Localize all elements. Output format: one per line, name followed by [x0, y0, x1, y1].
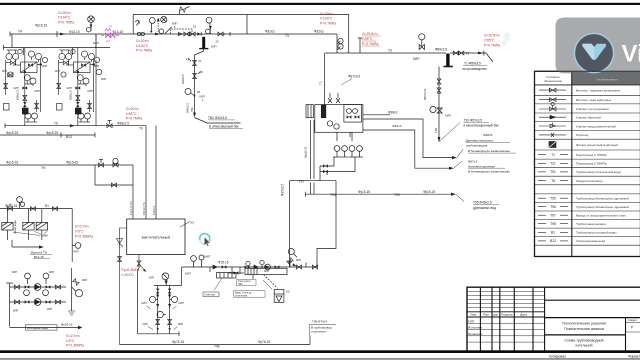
wire B1 drop x72.2	[71, 209, 73, 262]
svg-text:КИП: КИП	[13, 309, 18, 313]
X valves on top	[328, 93, 340, 103]
red note 8	[122, 268, 140, 277]
svg-text:котельной: котельной	[576, 344, 593, 348]
svg-text:Фкд10-15: Фкд10-15	[304, 146, 308, 158]
svg-text:КИП: КИП	[14, 86, 19, 90]
svg-text:трубопроводов: трубопроводов	[466, 144, 488, 148]
boxed label Исходная вода	[26, 325, 58, 330]
dashed box above T1	[171, 29, 193, 34]
black bar break symbol x448	[446, 54, 449, 67]
title block stage labels	[628, 318, 637, 330]
circles in box	[327, 121, 332, 126]
dashed stem x158	[157, 18, 159, 33]
svg-text:Химочищенная вода: Химочищенная вода	[576, 239, 605, 243]
wire T96 drain line y344.5	[120, 344, 311, 346]
legend table border over watermark	[535, 71, 640, 85]
svg-text:В атмосферный бак: В атмосферный бак	[209, 125, 239, 129]
legend row lines	[535, 95, 640, 245]
svg-text:Т96-Ф76х3: Т96-Ф76х3	[312, 319, 327, 323]
dashed diagonal	[264, 275, 278, 289]
svg-text:КИП: КИП	[49, 270, 54, 274]
mouse cursor	[204, 237, 210, 247]
KIP labels	[142, 270, 270, 326]
svg-text:Т97: Т97	[550, 214, 556, 218]
wire arrow line y247	[12, 246, 40, 248]
valve pair before exit	[453, 51, 458, 55]
instrument stack x90	[86, 16, 94, 32]
leader to HBK label	[13, 231, 48, 236]
svg-text:t=104°C: t=104°C	[320, 17, 333, 21]
wire B1 line y208.6	[0, 208, 72, 210]
svg-text:Т1: Т1	[466, 52, 470, 56]
title block small header labels	[470, 313, 527, 317]
instrument x209 above T1	[206, 17, 212, 34]
svg-text:КИП: КИП	[296, 259, 301, 262]
tank feed continues	[138, 268, 139, 334]
boiler unit 2	[55, 48, 95, 127]
legend header text	[544, 75, 563, 83]
svg-text:Условное: Условное	[546, 75, 560, 79]
svg-text:Ф57х3.5: Ф57х3.5	[423, 88, 427, 100]
wire bypass y185	[94, 165, 96, 185]
safety valves under deaerator	[333, 132, 363, 157]
svg-text:В безнапорную канализацию: В безнапорную канализацию	[468, 149, 510, 153]
svg-text:Т1-Ф89х3.5: Т1-Ф89х3.5	[464, 62, 481, 66]
wire T1 after break to exit	[450, 52, 479, 54]
label Вывоз в ТН underlined	[31, 251, 47, 259]
title block big dividers	[545, 299, 640, 301]
instrument on drop	[72, 243, 81, 249]
label T1 exit text	[462, 62, 487, 72]
wire T1 main steam line y34	[10, 33, 337, 35]
svg-text:Клапан обратный: Клапан обратный	[576, 116, 601, 120]
svg-text:Ф57х3: Ф57х3	[468, 159, 477, 163]
svg-text:t=104°C: t=104°C	[122, 273, 135, 277]
svg-text:Р=0.7МПа: Р=0.7МПа	[320, 21, 336, 25]
svg-text:19: 19	[193, 25, 196, 29]
magenta control valve	[101, 33, 119, 38]
pump P bottom	[34, 299, 41, 306]
leg symbols	[156, 289, 160, 294]
svg-text:G=20.8т/ч: G=20.8т/ч	[362, 32, 378, 36]
svg-text:Копировал: Копировал	[549, 354, 566, 358]
wire riser x310 to exit box	[309, 336, 311, 345]
handle marks x137	[135, 20, 140, 25]
svg-text:Т6: Т6	[139, 127, 143, 131]
svg-text:Фу15-15: Фу15-15	[358, 190, 370, 194]
boiler unit 1	[2, 48, 42, 127]
svg-text:Р=0.7МПа: Р=0.7МПа	[362, 42, 378, 46]
legend table outer border	[535, 71, 640, 256]
svg-text:РТ: РТ	[109, 24, 113, 28]
instrument circle x152	[149, 18, 155, 33]
title block names	[468, 320, 482, 336]
left gauge boxes	[306, 105, 313, 118]
svg-text:Исполнил: Исполнил	[468, 326, 482, 330]
svg-text:Т91: Т91	[299, 179, 305, 183]
svg-text:КИП: КИП	[42, 64, 47, 68]
label Фу15-15 top	[18, 24, 123, 34]
svg-text:t=104°C: t=104°C	[136, 44, 149, 48]
label atm tank	[208, 116, 239, 129]
svg-text:Лист: Лист	[483, 313, 490, 317]
arrow T1 exit	[478, 52, 483, 55]
wire GVS main y267	[182, 266, 318, 268]
svg-text:Т21: Т21	[550, 162, 556, 166]
instruments above	[191, 256, 197, 267]
svg-text:КИП: КИП	[143, 323, 148, 326]
node T1 start tick	[9, 32, 11, 37]
circle on T1 x161	[159, 29, 164, 34]
svg-text:Бак питательный: Бак питательный	[142, 236, 170, 240]
wire drop from bar2 down	[195, 49, 204, 114]
tank bottom drop	[138, 255, 140, 268]
svg-text:КИП: КИП	[35, 89, 40, 93]
svg-text:КИП: КИП	[178, 323, 183, 326]
wire T1 exit elbow	[479, 53, 493, 62]
svg-text:Ф32х3: Ф32х3	[265, 30, 275, 34]
red note 7	[75, 225, 93, 239]
wire drop from bar to drain header	[438, 67, 440, 139]
svg-text:КИП: КИП	[2, 69, 7, 73]
svg-text:Проверил: Проверил	[468, 332, 482, 336]
svg-text:Ф38х3: Ф38х3	[388, 110, 398, 114]
svg-text:Р=0.35МПа: Р=0.35МПа	[75, 235, 93, 239]
svg-text:Паропровод 0.39МПа: Паропровод 0.39МПа	[576, 162, 607, 166]
svg-text:t=104°C: t=104°C	[58, 16, 71, 20]
svg-text:Трубопровод выпара: Трубопровод выпара	[576, 222, 606, 226]
labels drain A	[392, 124, 510, 153]
control valve PCV x422 on T1	[419, 34, 425, 50]
svg-text:В13: В13	[66, 135, 72, 139]
svg-text:Клапан с регулировкой: Клапан с регулировкой	[576, 107, 609, 111]
svg-text:КИП: КИП	[47, 307, 52, 311]
label T95 exit	[473, 201, 496, 210]
svg-text:ТН: ТН	[41, 166, 46, 170]
label B13	[6, 131, 72, 139]
label T1 segment	[265, 30, 469, 61]
svg-text:Т3: Т3	[388, 49, 392, 53]
svg-text:Формат А3: Формат А3	[628, 354, 640, 358]
svg-text:G=20.8т/ч: G=20.8т/ч	[484, 34, 500, 38]
instruments above B1	[17, 197, 23, 209]
svg-text:В13-15: В13-15	[34, 255, 44, 259]
svg-text:Паропровод 1.70МПа: Паропровод 1.70МПа	[576, 153, 607, 157]
svg-text:Конденсатопровод: Конденсатопровод	[576, 179, 603, 183]
svg-text:в канализационный бак: в канализационный бак	[464, 123, 500, 127]
GVS pump cluster	[138, 267, 270, 336]
wire T1 right segment y53	[325, 52, 446, 54]
legend symbols	[539, 88, 566, 147]
valves on T91	[98, 160, 103, 168]
svg-text:КИП: КИП	[149, 276, 154, 279]
loading spinner	[200, 234, 210, 244]
labels near bar	[193, 25, 219, 49]
svg-text:Пояснительная записка: Пояснительная записка	[564, 327, 604, 331]
svg-text:Т2: Т2	[319, 81, 323, 85]
frame bottom border	[0, 350, 640, 353]
svg-text:Т91: Т91	[550, 170, 556, 174]
title block verticals	[480, 287, 544, 351]
wire drop x156 to tank	[155, 126, 157, 219]
title block thin rows top	[467, 291, 545, 307]
legend names	[576, 89, 629, 244]
svg-text:отопления: отопления	[235, 294, 248, 297]
svg-text:док.: док.	[493, 313, 499, 317]
svg-text:Т95: Т95	[394, 193, 400, 197]
svg-text:на производство: на производство	[462, 67, 487, 71]
svg-text:Схема трубопроводной: Схема трубопроводной	[564, 339, 603, 343]
watermark logo circle	[574, 33, 613, 72]
svg-text:Фу15-15: Фу15-15	[423, 190, 435, 194]
svg-text:Фу15-15: Фу15-15	[6, 161, 18, 165]
heat exchanger rect	[245, 268, 287, 274]
watermark panel	[556, 18, 640, 74]
valves on GVS line	[213, 265, 217, 269]
instrument near riser	[288, 249, 297, 258]
label T92 drain texts	[423, 88, 451, 133]
svg-text:Т95-Ф45х2.5: Т95-Ф45х2.5	[473, 201, 492, 205]
wire pump header bottom y302	[10, 301, 67, 303]
wire pump header top y287	[10, 286, 67, 288]
svg-text:КИП: КИП	[445, 113, 451, 117]
valve pair on T1	[184, 32, 189, 36]
svg-text:Р=0.7МПа: Р=0.7МПа	[126, 117, 142, 121]
big instrument right	[72, 287, 83, 297]
svg-text:Клапан предохранительный: Клапан предохранительный	[576, 125, 616, 129]
valve right of bar	[218, 32, 223, 36]
svg-text:РТ: РТ	[107, 40, 111, 44]
wire deaerator outlet right y114.8/117.7	[363, 114, 390, 116]
inter-boiler instruments	[42, 57, 47, 62]
wire drop x324.4 from T3	[323, 53, 325, 105]
pump P top	[34, 284, 41, 291]
red note 5	[484, 34, 500, 48]
red note 4	[362, 32, 378, 46]
wire inlet water line y327.5	[10, 327, 80, 329]
svg-text:КИП: КИП	[55, 69, 60, 73]
legend table column divider	[571, 71, 573, 256]
svg-text:ТВ2-Ф32х3.5: ТВ2-Ф32х3.5	[208, 116, 227, 120]
boxed label Узел ГВС	[237, 280, 257, 286]
labels drain B	[468, 159, 510, 173]
svg-text:Т95: Т95	[330, 193, 336, 197]
svg-text:Изм.: Изм.	[470, 313, 477, 317]
svg-text:Т96: Т96	[214, 345, 220, 349]
instrument circles pumps	[25, 273, 31, 284]
svg-text:Счетчик: Счетчик	[205, 293, 216, 297]
svg-text:Фу15-15: Фу15-15	[6, 131, 18, 135]
svg-text:Т92-Ф57х3.5: Т92-Ф57х3.5	[464, 118, 483, 122]
svg-text:Фу76-15: Фу76-15	[258, 340, 270, 344]
wire riser x360 red-label stub	[359, 38, 361, 53]
instrument gauge x166	[161, 17, 167, 23]
svg-text:Технологические решения: Технологические решения	[562, 322, 606, 326]
wire riser x133 T1 to bypass	[132, 15, 134, 35]
svg-text:Т1: Т1	[551, 153, 555, 157]
label KIP flag	[93, 41, 99, 49]
black bar break 2	[202, 37, 205, 48]
labels on T96	[172, 340, 270, 348]
svg-text:КИП: КИП	[211, 45, 216, 49]
svg-text:КИП: КИП	[264, 270, 269, 273]
svg-text:Подпись: Подпись	[501, 313, 513, 317]
red note 2	[136, 39, 152, 53]
svg-text:Вывод от предохранительных: Вывод от предохранительных клап.	[576, 214, 627, 218]
watermark logo chevron	[582, 44, 606, 60]
svg-text:Трубопровод безнапорных дрен: Трубопровод безнапорных дренажей	[576, 197, 629, 201]
K3 funnel box	[274, 289, 284, 302]
svg-text:Т96: Т96	[550, 205, 556, 209]
svg-text:t=95°C: t=95°C	[484, 39, 495, 43]
svg-text:Т92: Т92	[434, 127, 438, 133]
svg-text:Ф28х2.5: Ф28х2.5	[69, 90, 73, 100]
wire riser x289 from T91corner down to GVS	[288, 181, 290, 267]
footer	[138, 333, 179, 335]
header	[154, 285, 182, 287]
valve on overflow	[118, 256, 122, 261]
frame top border	[0, 3, 640, 5]
svg-text:Трубопровод исходной воды: Трубопровод исходной воды	[576, 231, 616, 235]
wire drain B	[363, 130, 450, 168]
red note 1	[58, 11, 74, 25]
svg-text:Исходная вода: Исходная вода	[27, 326, 48, 330]
svg-text:Ф43х3: Ф43х3	[392, 124, 401, 128]
filter boxes	[2, 222, 48, 230]
svg-text:Трубопровод питательной воды: Трубопровод питательной воды	[576, 170, 621, 174]
svg-text:Стадия: Стадия	[628, 318, 637, 322]
red note 9	[66, 334, 84, 348]
wire T95 line y194.2	[305, 193, 452, 195]
svg-text:ТВ2: ТВ2	[190, 107, 194, 112]
svg-text:КИП: КИП	[185, 272, 191, 276]
svg-text:ГВС: ГВС	[238, 283, 243, 286]
svg-text:Ф15х2.5: Ф15х2.5	[281, 184, 285, 196]
rotated labels	[186, 103, 194, 113]
diagonal link	[165, 27, 172, 34]
svg-text:23: 23	[216, 40, 219, 44]
wire T91 line y165	[0, 164, 133, 166]
label	[5, 204, 49, 208]
svg-text:НВК: НВК	[42, 234, 48, 238]
wire drop x146 T6 to tank	[145, 126, 147, 219]
top instrument	[162, 273, 169, 280]
svg-text:Vi: Vi	[622, 41, 640, 68]
svg-text:Трубопровод безнапорных дрен: Трубопровод безнапорных дренажей	[576, 205, 629, 209]
label T91	[6, 161, 78, 170]
svg-text:Ф13-15: Ф13-15	[69, 30, 80, 34]
boxed label Смеситель	[203, 292, 219, 297]
legend header dark cell	[572, 72, 640, 85]
svg-text:G=20т/ч: G=20т/ч	[58, 11, 71, 15]
svg-text:Т6: Т6	[54, 121, 58, 125]
valve on T6	[107, 121, 112, 128]
svg-text:G=2.9т/ч: G=2.9т/ч	[66, 334, 80, 338]
svg-text:Р=0.7МПа: Р=0.7МПа	[484, 44, 500, 48]
svg-text:КИП: КИП	[82, 278, 87, 282]
svg-text:t=5°C: t=5°C	[66, 339, 75, 343]
svg-text:Фу15-15: Фу15-15	[46, 131, 58, 135]
svg-text:КИП: КИП	[101, 77, 106, 81]
svg-text:Дата: Дата	[520, 313, 527, 317]
red note 3	[320, 12, 336, 26]
valve 2 below	[193, 72, 201, 79]
legs	[157, 286, 159, 334]
svg-text:Грязевые дренажи: Грязевые дренажи	[468, 164, 495, 168]
svg-text:Т3: Т3	[285, 34, 289, 38]
svg-text:G=20т/ч: G=20т/ч	[320, 12, 333, 16]
svg-text:В12: В12	[550, 239, 556, 243]
svg-text:Фильтр магнитный муфтовый: Фильтр магнитный муфтовый	[576, 143, 618, 147]
title block project text	[562, 322, 606, 348]
svg-text:Р=0.35МПа: Р=0.35МПа	[66, 344, 84, 348]
svg-text:Ф45х2.5: Ф45х2.5	[186, 103, 190, 113]
svg-text:Запас воды: Запас воды	[13, 220, 17, 234]
svg-text:КИП: КИП	[94, 64, 99, 68]
instrument on drain	[430, 106, 442, 113]
svg-text:G=2.9т/ч: G=2.9т/ч	[75, 225, 89, 229]
svg-text:Фу15-15: Фу15-15	[66, 161, 78, 165]
svg-text:t=95°C: t=95°C	[362, 37, 373, 41]
svg-text:Фу76-15: Фу76-15	[172, 340, 184, 344]
wire vertical x71.6 drain	[71, 268, 73, 311]
svg-text:Т95: Т95	[550, 197, 556, 201]
svg-text:В безнапорную канализацию: В безнапорную канализацию	[468, 169, 510, 173]
svg-text:t=95°C: t=95°C	[126, 112, 137, 116]
svg-text:t=5°C: t=5°C	[75, 230, 84, 234]
svg-text:В1: В1	[45, 204, 49, 208]
wire drop x133 to tank	[132, 165, 134, 219]
svg-text:Ф38х2.5: Ф38х2.5	[153, 205, 156, 215]
svg-text:КИП: КИП	[74, 250, 79, 254]
svg-text:Вентиль, кран муфтовые: Вентиль, кран муфтовые	[576, 98, 612, 102]
svg-text:Наименование: Наименование	[596, 77, 618, 81]
Y strainer on overflow	[117, 239, 124, 247]
red note 6	[126, 107, 142, 121]
svg-text:Ф57х3.5 Т6: Ф57х3.5 Т6	[143, 202, 146, 215]
svg-text:КИП: КИП	[413, 57, 420, 61]
svg-text:Р=0.7МПа: Р=0.7МПа	[58, 20, 74, 24]
valves on pump lines	[14, 285, 19, 289]
rotated pipe labels at tank top	[130, 200, 156, 215]
tank overflow line	[120, 228, 127, 345]
KIP labels	[12, 270, 87, 313]
wire T6 condensate line y125.7	[5, 125, 146, 127]
inner box	[344, 105, 362, 123]
svg-text:Р=0.7МПа: Р=0.7МПа	[136, 49, 152, 53]
circle on T1 x208	[206, 29, 211, 34]
svg-text:КИП: КИП	[142, 302, 147, 305]
svg-text:ТН: ТН	[18, 29, 23, 33]
svg-text:Ф28х2.5: Ф28х2.5	[16, 90, 20, 100]
svg-text:дренажных вод: дренажных вод	[473, 206, 496, 210]
label T96 exit box	[311, 319, 332, 333]
svg-text:Ф38х3: Ф38х3	[483, 133, 492, 137]
svg-text:Ф32х3.5: Ф32х3.5	[181, 74, 185, 84]
arrow drain T92 down	[438, 137, 441, 143]
svg-text:Ру=0.4МПа: Ру=0.4МПа	[122, 268, 140, 272]
wire drain A	[349, 132, 351, 137]
svg-text:отопления: отопления	[311, 329, 326, 333]
svg-text:Переход: Переход	[576, 133, 588, 137]
svg-text:Дренажи напорных: Дренажи напорных	[466, 139, 494, 143]
wire bypass line y14	[133, 15, 349, 54]
drop from GVS line	[181, 267, 183, 286]
svg-text:Ф38х2.5: Ф38х2.5	[117, 121, 129, 125]
safety collector wires	[320, 157, 355, 172]
svg-text:Т98: Т98	[550, 222, 556, 226]
vypar pipe pair	[310, 120, 312, 179]
